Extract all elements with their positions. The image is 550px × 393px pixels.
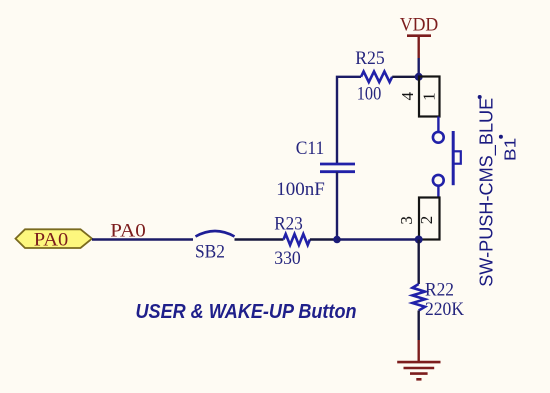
svg-text:B1: B1 (503, 138, 520, 162)
solder bridge SB2 (195, 231, 235, 263)
svg-text:R23: R23 (274, 213, 303, 234)
svg-text:3: 3 (397, 216, 416, 225)
wire PA0 flag to SB2 (92, 238, 193, 240)
wire C11 bottom plate to node A (336, 172, 338, 240)
switch B1 pin block pins 3-2 (397, 198, 440, 240)
svg-text:R22: R22 (425, 279, 454, 300)
wire C11 top branch corner to R25 left lead (337, 77, 361, 164)
svg-text:VDD: VDD (400, 15, 439, 35)
switch B1 top contact (433, 132, 444, 143)
capacitor C11 (276, 138, 355, 200)
wire pin block 4-1 to top contact (437, 117, 439, 132)
wire R25 to node B (392, 76, 419, 78)
svg-text:330: 330 (274, 248, 301, 269)
power symbol VDD (400, 15, 439, 58)
ground (397, 362, 440, 379)
svg-text:100: 100 (357, 84, 382, 105)
svg-text:2: 2 (417, 216, 436, 225)
wire ground lead (418, 340, 420, 361)
svg-text:220K: 220K (425, 299, 464, 320)
wire VDD stem to node B (418, 58, 420, 77)
svg-text:100nF: 100nF (276, 179, 325, 200)
wire bottom contact to pin block 3-2 (437, 186, 439, 198)
wire node C to R22 (418, 240, 420, 285)
marker dot after designator B1 (499, 135, 503, 139)
wire node A to node C (337, 238, 419, 240)
svg-text:R25: R25 (355, 48, 385, 69)
svg-text:SB2: SB2 (195, 242, 225, 263)
svg-text:C11: C11 (296, 138, 325, 159)
svg-text:USER & WAKE-UP Button: USER & WAKE-UP Button (136, 301, 357, 323)
svg-text:PA0: PA0 (110, 220, 146, 241)
wire R23 to node A (310, 238, 337, 240)
svg-text:SW-PUSH-CMS_BLUE: SW-PUSH-CMS_BLUE (477, 98, 498, 287)
resistor R23 (274, 213, 310, 269)
wire R22 to ground (418, 311, 420, 341)
switch B1 actuator (453, 131, 461, 185)
marker dot after switch name (478, 95, 482, 99)
node A junction C11 / R23 (333, 236, 341, 244)
svg-text:PA0: PA0 (34, 230, 69, 251)
net flag PA0 (16, 229, 93, 250)
resistor R22 (412, 279, 464, 320)
switch B1 pin block pins 4-1 (398, 77, 439, 117)
resistor R25 (355, 48, 392, 105)
switch B1 bottom contact (433, 175, 444, 186)
svg-text:1: 1 (420, 92, 439, 101)
node B junction VDD / R25 / switch pins 4-1 (415, 73, 423, 81)
node C junction switch pins 3-2 / R22 (415, 236, 423, 244)
wire SB2 to R23 (235, 238, 284, 240)
svg-text:4: 4 (398, 92, 417, 101)
